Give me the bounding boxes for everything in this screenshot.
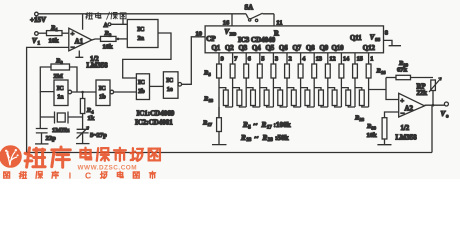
resistor R28 xyxy=(355,88,369,107)
svg-text:IC: IC xyxy=(99,85,106,92)
wire ladder node 12 xyxy=(368,78,370,107)
resistor R21 xyxy=(260,88,274,107)
svg-text:16: 16 xyxy=(381,70,386,75)
svg-text:10k: 10k xyxy=(49,37,60,44)
resistor R2 10k xyxy=(101,30,117,50)
wire ladder node 3 xyxy=(245,78,247,107)
svg-text:18: 18 xyxy=(246,138,252,143)
wire summing node vertical xyxy=(386,78,399,100)
capacitor 22p xyxy=(35,92,56,144)
svg-text:67k: 67k xyxy=(397,67,408,74)
svg-text:30: 30 xyxy=(372,126,377,131)
svg-text:V: V xyxy=(225,29,230,36)
svg-text:IC: IC xyxy=(138,79,145,86)
wire IC1a out to IC1b in xyxy=(72,91,96,93)
svg-text:Q10: Q10 xyxy=(332,45,345,52)
svg-text:Q1: Q1 xyxy=(212,45,221,52)
wire IC1e out up to CP pin 10 xyxy=(182,37,206,85)
resistor R15 xyxy=(353,64,358,78)
svg-text:R: R xyxy=(240,134,246,142)
svg-text:15: 15 xyxy=(357,55,363,62)
wire R1 to A1 + input xyxy=(62,32,69,34)
svg-text:17: 17 xyxy=(267,125,273,130)
svg-text:10: 10 xyxy=(196,30,203,37)
svg-text:16: 16 xyxy=(223,20,230,27)
pin 16 VDD stub xyxy=(223,14,232,27)
label R18~R28:50k xyxy=(240,134,289,143)
svg-text:IC: IC xyxy=(137,26,145,33)
svg-text:7: 7 xyxy=(234,55,237,62)
svg-text:A2: A2 xyxy=(405,105,414,113)
node junction on R2 wire xyxy=(117,38,120,41)
resistor R22 xyxy=(273,88,287,107)
svg-text:5~27p: 5~27p xyxy=(90,132,107,139)
svg-text:R: R xyxy=(242,121,248,129)
resistor R14 xyxy=(339,64,344,78)
inverter IC1e xyxy=(163,72,181,99)
wire A1 inverting input loop to bottom-left xyxy=(27,47,69,152)
wire ladder node 6 xyxy=(286,78,288,107)
wire Q output pin 7 stub xyxy=(233,53,238,64)
svg-text:2b: 2b xyxy=(138,88,145,95)
wire ladder output to A2 xyxy=(369,89,386,91)
label R5 xyxy=(203,70,212,77)
svg-text:A1: A1 xyxy=(75,37,84,45)
resistor R18 xyxy=(219,88,233,107)
resistor R23 xyxy=(287,88,301,107)
wire ladder node 1 xyxy=(218,78,220,118)
svg-text:Q7: Q7 xyxy=(293,45,302,52)
svg-text:Q6: Q6 xyxy=(279,45,288,52)
svg-text:Q4: Q4 xyxy=(252,45,261,52)
label 1/2 LM358 xyxy=(87,56,109,70)
wire ladder node 8 xyxy=(313,78,315,107)
resistor R13 xyxy=(325,64,330,78)
svg-text:22k: 22k xyxy=(417,90,428,97)
svg-text:Q8: Q8 xyxy=(306,45,315,52)
pin 8 VSS to ground xyxy=(384,29,402,45)
svg-text:1: 1 xyxy=(370,55,373,62)
wire Q output pin 6 stub xyxy=(246,53,251,64)
svg-text:+: + xyxy=(400,98,404,105)
wire A2 lower input to R30 xyxy=(385,112,399,118)
resistor R4 1k xyxy=(80,92,94,122)
svg-text:Q3: Q3 xyxy=(239,45,248,52)
svg-text::50k: :50k xyxy=(275,134,289,142)
wire A1 output to R2 xyxy=(92,39,101,40)
svg-text:IC: IC xyxy=(166,77,173,84)
resistor R26 xyxy=(328,88,342,107)
inverter IC1b xyxy=(96,80,114,106)
svg-text:1/2: 1/2 xyxy=(401,125,410,132)
wire ladder node 4 xyxy=(259,78,261,107)
resistor R8 xyxy=(257,64,262,78)
svg-text:V: V xyxy=(370,35,375,42)
ground under R17 xyxy=(212,132,227,145)
resistor R20 xyxy=(246,88,260,107)
svg-text:IC3 CD4040: IC3 CD4040 xyxy=(238,36,276,44)
svg-text:2: 2 xyxy=(289,55,292,62)
svg-text:R: R xyxy=(261,121,267,129)
wire Q output pin 9 stub xyxy=(219,53,224,64)
svg-text::100k: :100k xyxy=(274,121,291,129)
svg-text:Q12: Q12 xyxy=(363,45,376,52)
node junction IC1a-out / R4 xyxy=(81,91,84,94)
resistor R30 10k xyxy=(366,118,387,139)
svg-text:1b: 1b xyxy=(99,94,106,101)
switch SA xyxy=(245,5,275,22)
wire R3 right down to IC1a output xyxy=(70,67,78,92)
wire Q output pin 1 stub xyxy=(369,53,374,64)
inverter IC1a xyxy=(54,80,72,106)
wire Q output pin 2 stub xyxy=(287,53,292,64)
wire ladder node 10 xyxy=(340,78,342,107)
wire Q output pin 14 stub xyxy=(341,53,349,64)
node Vo terminal xyxy=(441,102,450,120)
label R18 xyxy=(203,95,214,102)
crystal 1MHz xyxy=(40,112,82,135)
svg-text:10k: 10k xyxy=(103,44,114,51)
resistor R24 xyxy=(301,88,315,107)
svg-text:4: 4 xyxy=(302,55,305,62)
wire A1 supply stub xyxy=(82,14,84,30)
wire Q output pin 15 stub xyxy=(355,53,363,64)
wire top +15V rail xyxy=(38,13,246,15)
resistor R12 xyxy=(312,64,317,78)
AND gate IC2a xyxy=(127,20,158,48)
AND gate IC2b xyxy=(136,74,149,100)
watermark big text wei ku xyxy=(25,147,70,167)
node A terminal xyxy=(104,23,128,29)
watermark slogan quan qiu zui da IC cai gou wang zhan xyxy=(4,171,156,181)
resistor R1 10k xyxy=(47,25,63,45)
svg-text:28: 28 xyxy=(268,138,274,143)
wire IC2b out to IC1e xyxy=(150,85,164,87)
wire IC2a output loop to IC2b upper input xyxy=(123,33,171,78)
wire ladder node 11 xyxy=(354,78,356,107)
resistor R10 xyxy=(285,64,290,78)
watermark text dian zi shi chang wang xyxy=(81,148,160,161)
svg-text:Q2: Q2 xyxy=(225,45,234,52)
svg-text:10k: 10k xyxy=(367,132,378,139)
svg-text:2a: 2a xyxy=(138,35,145,42)
wire rail stub to A wire xyxy=(122,14,124,24)
svg-text:14: 14 xyxy=(343,55,349,62)
svg-text:12: 12 xyxy=(329,55,335,62)
op-amp A2 (1/2 LM358) xyxy=(399,93,425,117)
resistor R5 xyxy=(217,64,222,78)
svg-text:22p: 22p xyxy=(46,135,57,142)
wire bottom baseline xyxy=(27,152,432,154)
svg-text:17: 17 xyxy=(208,122,213,127)
resistor R25 xyxy=(314,88,328,107)
svg-text:+15V: +15V xyxy=(30,16,46,24)
svg-text:CP: CP xyxy=(206,35,216,43)
svg-text:LM358: LM358 xyxy=(396,135,418,142)
svg-text:I: I xyxy=(69,171,71,179)
resistor R11 xyxy=(298,64,303,78)
svg-text:2M: 2M xyxy=(54,73,63,80)
wire Q output pin 12 stub xyxy=(328,53,336,64)
wire ladder node 7 xyxy=(300,78,302,107)
svg-text:13: 13 xyxy=(316,55,322,62)
pin 11 reset stub xyxy=(274,14,282,27)
label R28 xyxy=(354,114,365,121)
svg-text:9: 9 xyxy=(221,55,224,62)
wire V1 to R1 xyxy=(38,32,46,34)
wire Q output pin 4 stub xyxy=(301,53,306,64)
wire R2 to IC2a lower input xyxy=(116,38,127,40)
svg-text:1e: 1e xyxy=(167,86,173,93)
svg-text:1k: 1k xyxy=(88,115,95,122)
resistor R17 xyxy=(202,107,221,132)
resistor R27 xyxy=(341,88,355,107)
label R5~R17:100k xyxy=(242,121,291,130)
resistor R9 xyxy=(271,64,276,78)
ground below A1 xyxy=(75,51,83,58)
labels Q1-Q10 xyxy=(212,45,345,52)
svg-text:DD: DD xyxy=(230,31,237,36)
label R16 xyxy=(376,68,387,75)
svg-text:5: 5 xyxy=(261,55,264,62)
node output junction xyxy=(432,104,435,107)
wire R3 left loop down to IC1a input xyxy=(40,67,54,92)
node +15V terminal xyxy=(30,12,46,24)
label 1/2 LM358 (A2) xyxy=(396,125,418,142)
svg-text:1MHz: 1MHz xyxy=(52,127,69,134)
wire IC1b out to IC2b input xyxy=(114,91,137,93)
wire ladder node 2 xyxy=(232,78,234,107)
wire Q output pin 13 stub xyxy=(314,53,322,64)
resistor R16 xyxy=(366,64,371,78)
wire Q output pin 5 stub xyxy=(260,53,265,64)
IC U3 CD4040 counter box xyxy=(205,26,383,53)
svg-text:Q5: Q5 xyxy=(266,45,275,52)
op-amp A1 (1/2 LM358) xyxy=(69,28,92,51)
wire output return to bottom line xyxy=(431,105,433,152)
resistor R7 xyxy=(244,64,249,78)
resistor R19 xyxy=(233,88,247,107)
svg-text:~: ~ xyxy=(254,121,258,129)
svg-text:~: ~ xyxy=(255,134,259,142)
resistor R6 xyxy=(230,64,235,78)
resistor R3 2M xyxy=(51,58,70,80)
wire A2 output xyxy=(425,104,445,106)
ground under R30 xyxy=(377,139,391,145)
svg-text:C: C xyxy=(85,171,91,179)
wire ladder node 9 xyxy=(327,78,329,107)
watermark logo disc xyxy=(0,145,22,168)
svg-text:6: 6 xyxy=(248,55,251,62)
svg-text:SS: SS xyxy=(375,37,381,42)
svg-text:IC2:CD4081: IC2:CD4081 xyxy=(135,118,173,126)
label track/hold (gen zong / bao chi) xyxy=(86,12,126,20)
svg-text:3: 3 xyxy=(275,55,278,62)
trimmer capacitor 5~27p xyxy=(76,117,107,144)
svg-text:1a: 1a xyxy=(57,94,63,101)
wire Q output pin 3 stub xyxy=(273,53,278,64)
svg-text:28: 28 xyxy=(360,117,365,122)
svg-text:LM358: LM358 xyxy=(87,62,109,69)
svg-text:Q11: Q11 xyxy=(350,35,362,42)
svg-text:Q9: Q9 xyxy=(320,45,329,52)
potentiometer RP 22k xyxy=(417,78,442,105)
svg-text:11: 11 xyxy=(276,20,282,27)
resistor R29 67k xyxy=(386,60,433,80)
svg-text:SA: SA xyxy=(245,5,254,12)
svg-text:IC: IC xyxy=(57,85,64,92)
svg-text:R: R xyxy=(262,134,268,142)
wire ladder node 5 xyxy=(272,78,274,107)
node V1 input terminal xyxy=(32,32,41,47)
svg-text:18: 18 xyxy=(209,98,214,103)
svg-text:IC1:CD4069: IC1:CD4069 xyxy=(137,109,175,117)
